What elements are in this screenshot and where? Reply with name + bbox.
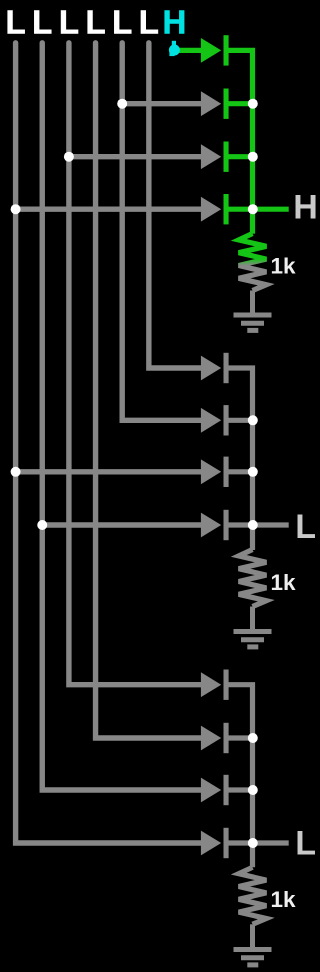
svg-text:1k: 1k: [271, 887, 297, 912]
svg-text:1k: 1k: [271, 254, 297, 279]
svg-text:1k: 1k: [271, 570, 297, 595]
svg-text:H: H: [162, 3, 186, 40]
svg-text:L: L: [85, 3, 105, 40]
svg-text:H: H: [293, 188, 318, 226]
svg-text:L: L: [139, 3, 159, 40]
svg-text:L: L: [295, 508, 316, 546]
svg-text:L: L: [59, 3, 79, 40]
svg-text:L: L: [295, 825, 316, 863]
svg-text:L: L: [6, 3, 26, 40]
svg-text:L: L: [112, 3, 132, 40]
svg-text:L: L: [32, 3, 52, 40]
